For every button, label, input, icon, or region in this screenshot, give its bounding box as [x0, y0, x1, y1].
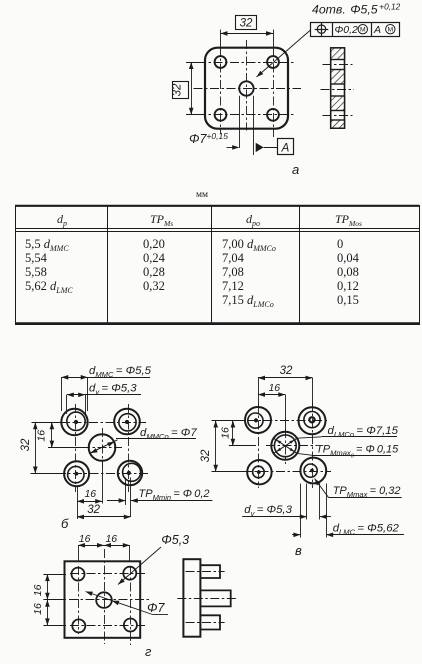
svg-text:7,04: 7,04 — [222, 251, 245, 265]
svg-text:M: M — [387, 27, 393, 34]
svg-text:Φ0,2: Φ0,2 — [335, 24, 359, 36]
view a: leader from tolerance frame to top-right hole — [257, 30, 311, 77]
view a: hole top-right — [267, 56, 279, 68]
diagram v: hole bottom-left outer circle — [247, 460, 271, 484]
table: header separator double line — [15, 228, 419, 230]
diagram v: hole bottom-right center dot — [310, 469, 314, 473]
diagram v: left dimension 16 extension line — [229, 445, 256, 447]
svg-text:16: 16 — [84, 488, 96, 500]
svg-text:Φ5,3: Φ5,3 — [161, 533, 189, 547]
svg-text:5,54: 5,54 — [25, 251, 48, 265]
diagram g: horizontal centerline top row — [70, 573, 147, 575]
view a: left dimension 32 extension lines — [186, 62, 206, 64]
svg-text:TPMmax = 0,32: TPMmax = 0,32 — [333, 485, 401, 499]
view a: position symbol — [317, 25, 325, 33]
svg-text:5,58: 5,58 — [25, 265, 47, 279]
diagram b: hole top-left outer circle — [61, 409, 87, 435]
view a: datum A connector line — [264, 147, 278, 149]
diagram g: hole bottom-right — [124, 619, 137, 632]
diagram b: left dimension 16 line with arrows — [51, 422, 53, 447]
diagram b: bottom extension lines — [77, 487, 79, 519]
gauge side view: centerline top pin — [186, 571, 225, 573]
svg-text:32: 32 — [200, 449, 212, 462]
gauge side view: bottom pin — [200, 615, 220, 629]
diagram g: horizontal centerline bottom row — [70, 625, 147, 627]
diagram b: hole top-left center dot — [74, 420, 78, 424]
svg-text:32: 32 — [280, 365, 293, 377]
diagram g: vertical centerline center column — [104, 549, 106, 644]
svg-text:0,08: 0,08 — [337, 265, 359, 279]
gauge side view: middle pin — [200, 590, 230, 606]
svg-text:32: 32 — [172, 83, 184, 96]
section view: centerline top row — [323, 64, 353, 66]
diagram g: hole bottom-left — [72, 619, 85, 632]
svg-text:0,20: 0,20 — [143, 237, 165, 251]
svg-text:0,28: 0,28 — [143, 265, 165, 279]
svg-text:16: 16 — [79, 533, 91, 545]
diagram b: label d_MMCo leader line — [116, 438, 196, 440]
diagram v: hole bottom-right outer circle — [300, 458, 326, 484]
diagram v: center diameter line upper — [274, 438, 297, 453]
diagram v: extension lines below bottom-right hole — [300, 484, 302, 538]
diagram v: left dimension 32 extension lines — [212, 420, 247, 422]
diagram g: top dimension 16 16 line with arrows — [78, 545, 130, 547]
diagram g: horizontal centerline middle row — [69, 599, 150, 601]
diagram b: bottom dimension 16 line with arrows — [77, 501, 102, 503]
svg-text:в: в — [295, 543, 302, 558]
svg-text:A: A — [281, 143, 290, 155]
svg-text:16: 16 — [105, 533, 117, 545]
svg-text:Φ7: Φ7 — [147, 601, 165, 615]
view a: hole bottom-right — [267, 109, 279, 121]
gauge side view: body plate — [183, 559, 200, 637]
diagram v: label TP_Mmax leader — [315, 479, 329, 498]
diagram v: center circle outer d_LMCo — [271, 432, 299, 460]
view a: leader arrow of F7 to extension line — [227, 147, 239, 149]
diagram b: hole bottom-left center dot — [75, 472, 79, 476]
diagram v: horizontal centerline middle row — [266, 445, 317, 447]
diagram v: label TP_Mmax0 leader and underline — [297, 453, 312, 455]
diagram v: dimension d_v line with arrows — [242, 516, 307, 518]
diagram b: horizontal centerline top row — [56, 422, 146, 424]
diagram b: hole bottom-right outer circle — [118, 461, 142, 485]
svg-text:7,08: 7,08 — [222, 265, 244, 279]
diagram b: center circle diameter line with arrows — [89, 440, 117, 454]
diagram g: center hole — [96, 592, 112, 608]
diagram b: dimension d_v line with arrows — [67, 394, 141, 396]
diagram b: bottom dimension 32 line with arrows — [77, 516, 131, 518]
diagram g: top dimension extension lines — [78, 545, 80, 560]
diagram v: top dimension 32 line with arrows — [258, 377, 313, 379]
table: column divider 1 — [107, 205, 109, 324]
diagram b: horizontal centerline middle row — [48, 447, 122, 449]
diagram v: hole bottom-right inner circle — [304, 464, 317, 477]
svg-text:16: 16 — [36, 430, 48, 442]
view a: top dimension 32 line with arrows — [221, 33, 274, 35]
diagram b: TP_Mmin zone extension lines — [125, 478, 127, 506]
diagram b: vertical centerline right column — [128, 404, 130, 492]
diagram b: dimension d_MMC line with arrows — [61, 377, 150, 379]
diagram v: hole bottom-left center dot — [257, 470, 261, 474]
svg-text:M: M — [360, 27, 366, 34]
diagram g: left dimension 16 16 line with arrows — [47, 574, 49, 625]
view a: tolerance frame box — [311, 23, 400, 37]
diagram b: left dimension 32 line with arrows — [35, 422, 37, 473]
diagram b: left dimension 16 extension line — [48, 447, 90, 449]
diagram g: label F7 leader with arrows — [86, 592, 153, 615]
diagram b: center circle d_MMCo — [89, 434, 116, 461]
view a: left dimension 32 line with arrows — [191, 62, 193, 115]
view a: vertical centerline left hole column — [220, 30, 222, 48]
svg-text:0,12: 0,12 — [337, 279, 359, 293]
svg-text:16: 16 — [32, 603, 44, 615]
diagram b: extension lines from top-left hole — [61, 377, 63, 411]
diagram g: plate outline — [65, 561, 141, 638]
svg-text:0,32: 0,32 — [143, 279, 165, 293]
diagram b: hole top-right outer circle — [114, 409, 140, 435]
diagram v: horizontal centerline top row — [247, 420, 328, 422]
svg-text:г: г — [145, 644, 152, 659]
diagram b: hole top-left inner circle — [67, 412, 85, 430]
svg-text:0,04: 0,04 — [337, 251, 360, 265]
diagram b: hole top-right inner circle — [119, 414, 136, 431]
svg-text:0,15: 0,15 — [337, 293, 359, 307]
svg-text:0,24: 0,24 — [143, 251, 166, 265]
gauge side view: centerline bottom pin — [186, 622, 225, 624]
diagram v: vertical centerline left column — [258, 404, 260, 488]
section view: centerline middle row — [321, 89, 355, 91]
view a: center hole — [239, 81, 253, 95]
diagram v: left dimension 16 line with arrows — [232, 421, 234, 446]
section view: hatched blocks — [331, 48, 345, 60]
diagram v: label d_LMCo leader and underline — [297, 437, 322, 438]
svg-text:б: б — [61, 516, 69, 531]
diagram v: vertical centerline right column — [312, 402, 314, 488]
diagram b: left dimension 32 extension lines — [32, 422, 67, 424]
svg-text:32: 32 — [240, 18, 253, 30]
view a: horizontal centerline top hole row — [197, 62, 296, 64]
svg-text:7,12: 7,12 — [222, 279, 244, 293]
diagram v: label TP_Mmax underline — [328, 497, 401, 499]
diagram v: hole top-right small circle — [309, 417, 314, 422]
view a: hole bottom-left — [215, 109, 227, 121]
diagram v: hole bottom-left inner circle — [253, 466, 265, 478]
view a: horizontal centerline bottom hole row — [197, 114, 296, 116]
view a: datum A frame — [278, 139, 294, 155]
view a: vertical centerline right hole column — [273, 30, 275, 48]
diagram g: hole top-right — [123, 567, 136, 580]
view a: extension line left edge of center hole — [239, 96, 241, 148]
diagram g: left dimension extension lines — [43, 574, 66, 576]
table: column divider 3 — [299, 205, 301, 324]
diagram b: hole bottom-right center dot — [127, 471, 131, 475]
diagram v: hole top-right inner circle — [304, 412, 320, 428]
table: column divider 2 — [211, 205, 213, 324]
svg-text:A: A — [373, 24, 381, 36]
svg-text:32: 32 — [20, 438, 32, 451]
diagram g: label F5,3 leader with arrow — [118, 547, 161, 585]
svg-text:0: 0 — [337, 237, 343, 251]
diagram v: hole top-left inner circle — [248, 413, 263, 428]
diagram b: hole top-right center dot — [125, 420, 129, 424]
svg-text:16: 16 — [220, 427, 232, 439]
table: outer border — [16, 206, 420, 325]
diagram v: top dimension 16 line with arrows — [258, 394, 285, 396]
view a: extension line right edge of center hole — [253, 96, 255, 155]
diagram b: hole bottom-left outer circle — [64, 461, 89, 486]
view a: horizontal centerline middle row — [194, 88, 302, 90]
diagram b: vertical centerline center — [102, 428, 104, 468]
diagram v: top extension lines — [258, 378, 260, 407]
view a: vertical centerline center hole — [246, 40, 248, 131]
diagram g: hole top-left — [72, 568, 85, 581]
diagram v: center circle inner zone — [274, 435, 296, 457]
view a: top dimension 32 boxed value — [236, 16, 257, 30]
view a: left dimension 32 boxed value — [173, 82, 189, 99]
diagram b: hole bottom-left inner circle — [68, 466, 84, 482]
diagram v: left dimension 32 line with arrows — [215, 421, 217, 472]
gauge side view: top pin — [200, 565, 220, 578]
gauge side view: centerline middle pin — [177, 598, 236, 600]
diagram b: hole bottom-right inner circle — [123, 463, 141, 481]
diagram v: hole top-right outer circle — [299, 407, 326, 434]
svg-text:мм: мм — [196, 190, 208, 200]
diagram b: TP_Mmin dimension arrows — [107, 500, 126, 502]
view a: plate outline — [205, 48, 288, 129]
diagram v: dimension d_LMC line with arrows — [292, 534, 300, 536]
svg-text:16: 16 — [268, 382, 280, 394]
diagram v: hole top-left center dot — [254, 418, 258, 422]
diagram v: hole top-left outer circle — [245, 407, 271, 433]
diagram v: vertical centerline center — [285, 429, 287, 464]
diagram b: vertical centerline left column — [75, 404, 77, 492]
diagram v: center diameter line lower — [274, 438, 297, 453]
diagram g: vertical centerline left column — [78, 566, 80, 634]
svg-text:а: а — [292, 162, 299, 177]
view a: hole top-left — [215, 56, 227, 68]
svg-text:32: 32 — [87, 504, 100, 516]
svg-text:16: 16 — [32, 584, 44, 596]
svg-text:TPMmin = Φ 0,2: TPMmin = Φ 0,2 — [139, 488, 210, 502]
diagram g: vertical centerline right column — [130, 566, 132, 645]
diagram b: horizontal centerline bottom row — [40, 473, 148, 475]
section view: centerline bottom row — [323, 115, 353, 117]
diagram v: horizontal centerline bottom row — [243, 471, 331, 473]
section view: outline — [331, 48, 345, 128]
view a: datum A filled triangle — [256, 143, 264, 152]
